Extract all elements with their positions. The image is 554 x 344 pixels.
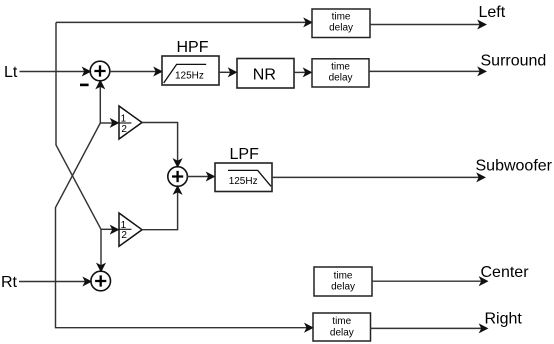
wire amp A1 to summing junction S3 — [142, 123, 182, 168]
svg-text:Rt: Rt — [1, 274, 18, 291]
wire top line to Left delay — [56, 18, 312, 26]
svg-text:Center: Center — [481, 264, 530, 281]
summing junction S1 — [90, 61, 110, 81]
svg-text:2: 2 — [121, 230, 127, 241]
time delay block (right) — [313, 313, 371, 341]
svg-text:HPF: HPF — [177, 39, 209, 56]
wire right delay to output — [371, 324, 488, 332]
svg-text:2: 2 — [121, 124, 127, 135]
output label Left — [479, 4, 506, 21]
wire center delay to output — [372, 277, 488, 285]
HPF label — [177, 39, 209, 56]
wire Rt input to summing junction S2 — [19, 278, 91, 286]
time delay block (left) — [312, 9, 370, 38]
input label Lt — [4, 64, 18, 81]
svg-text:delay: delay — [330, 327, 354, 338]
wire S1 to HPF — [110, 68, 163, 76]
wire upper tap up to S1 minus input — [96, 81, 104, 124]
wire S3 to LPF — [187, 173, 214, 181]
wire upper tap to amp A1 — [100, 119, 118, 127]
output label Surround — [481, 53, 547, 70]
output label Right — [485, 311, 523, 328]
svg-text:delay: delay — [329, 23, 353, 34]
minus sign at S1 — [80, 84, 89, 87]
svg-text:Right: Right — [485, 311, 523, 328]
svg-text:time: time — [331, 62, 350, 73]
output label Subwoofer — [476, 158, 553, 175]
wire lower tap down to summing junction S2 — [97, 229, 105, 271]
wire Rt diagonal to upper tap — [56, 123, 313, 332]
HPF block — [162, 56, 219, 85]
summing junction S3 — [168, 167, 188, 187]
svg-text:Lt: Lt — [4, 64, 18, 81]
svg-text:Surround: Surround — [481, 53, 547, 70]
svg-text:time: time — [332, 316, 351, 327]
LPF label — [230, 146, 260, 163]
svg-text:delay: delay — [331, 282, 355, 293]
svg-text:Left: Left — [479, 4, 506, 21]
LPF block — [215, 163, 272, 192]
svg-text:time: time — [332, 11, 351, 22]
svg-text:Subwoofer: Subwoofer — [476, 158, 553, 175]
wire Lt branch vertical and diagonal to lower tap — [56, 22, 101, 229]
wire lower tap to amp A2 — [101, 226, 119, 234]
svg-text:125Hz: 125Hz — [229, 176, 258, 187]
output label Center — [481, 264, 530, 281]
svg-text:NR: NR — [253, 66, 276, 83]
svg-text:125Hz: 125Hz — [175, 70, 204, 81]
wire surround delay to output — [369, 67, 486, 75]
svg-text:delay: delay — [329, 73, 353, 84]
summing junction S2 — [91, 271, 111, 291]
wire NR to surround time delay — [294, 68, 312, 76]
svg-text:LPF: LPF — [230, 146, 260, 163]
NR block — [237, 59, 294, 89]
input label Rt — [1, 274, 18, 291]
time delay block (surround) — [312, 59, 369, 87]
wire HPF to NR — [219, 68, 237, 76]
wire Lt input to summing junction S1 — [20, 68, 91, 76]
amp A1 gain 1/2 — [119, 106, 142, 139]
wire left delay to output — [370, 21, 486, 29]
wire amp A2 to summing junction S3 — [142, 186, 182, 230]
amp A2 gain 1/2 — [119, 213, 142, 246]
wire LPF to subwoofer output — [272, 173, 485, 181]
time delay block (center) — [314, 267, 372, 296]
svg-text:time: time — [334, 270, 353, 281]
